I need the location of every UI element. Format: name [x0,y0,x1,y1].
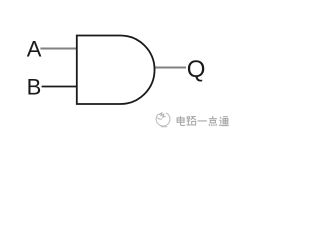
watermark logo icon [156,113,170,127]
char 路 [187,117,196,125]
svg-text:B: B [27,74,42,99]
watermark text 电路一点通 (drawn as strokes) [177,116,228,125]
wire output Q [154,67,186,69]
wire input B [42,86,77,88]
char 一 [198,120,207,122]
char 电 [177,116,185,125]
char 通 [219,117,228,126]
AND gate U1 [77,36,155,105]
svg-text:Q: Q [187,56,206,83]
svg-text:A: A [27,37,42,62]
wire input A [40,48,77,50]
char 点 [209,116,216,125]
